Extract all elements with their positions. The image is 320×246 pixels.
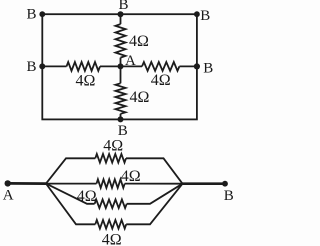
svg-text:B: B [224,188,234,204]
branch 1 wire + resistor (top 4Ω) [46,154,183,184]
node A (bottom figure) [5,180,11,186]
node B top-left [39,11,45,17]
resistor R4 (right horizontal 4Ω) [121,62,197,71]
resistor R2 (bottom vertical 4Ω) [116,66,126,119]
svg-text:A: A [3,188,14,204]
wire fan-in to B (thick) [183,182,226,185]
branch 4 wire + resistor (bottom 4Ω) [46,184,183,229]
svg-text:4Ω: 4Ω [129,33,149,50]
svg-text:B: B [200,8,210,24]
node B bottom-middle [118,116,124,122]
svg-text:4Ω: 4Ω [76,73,96,90]
svg-text:4Ω: 4Ω [103,137,123,154]
svg-text:4Ω: 4Ω [102,232,122,246]
node B top-middle [118,11,124,17]
branch 3 wire + resistor (third 4Ω) [46,184,183,209]
svg-text:B: B [119,0,129,13]
wire A to fan-out (thick) [8,182,46,185]
labels bottom figure [3,188,234,205]
svg-text:4Ω: 4Ω [77,188,97,205]
svg-text:A: A [125,53,136,69]
node dots top figure [39,11,200,122]
wire rectangle loop (top figure) [42,14,197,119]
node B (bottom figure) [222,181,228,187]
svg-text:4Ω: 4Ω [130,89,150,106]
resistor R1 (top vertical 4Ω) [116,14,126,66]
svg-text:B: B [203,60,213,76]
resistor R3 (left horizontal 4Ω) [42,62,120,71]
branch 2 wire + resistor (second 4Ω) [46,179,183,188]
svg-text:B: B [27,7,37,23]
svg-text:B: B [27,59,37,75]
svg-text:4Ω: 4Ω [121,168,141,185]
node A centre [118,63,124,69]
labels top figure [27,0,214,139]
node B top-right [194,11,200,17]
svg-text:4Ω: 4Ω [151,72,171,89]
node B mid-left [39,63,45,69]
bottom figure: four parallel resistors between A and B [46,154,183,229]
node B mid-right [194,63,200,69]
